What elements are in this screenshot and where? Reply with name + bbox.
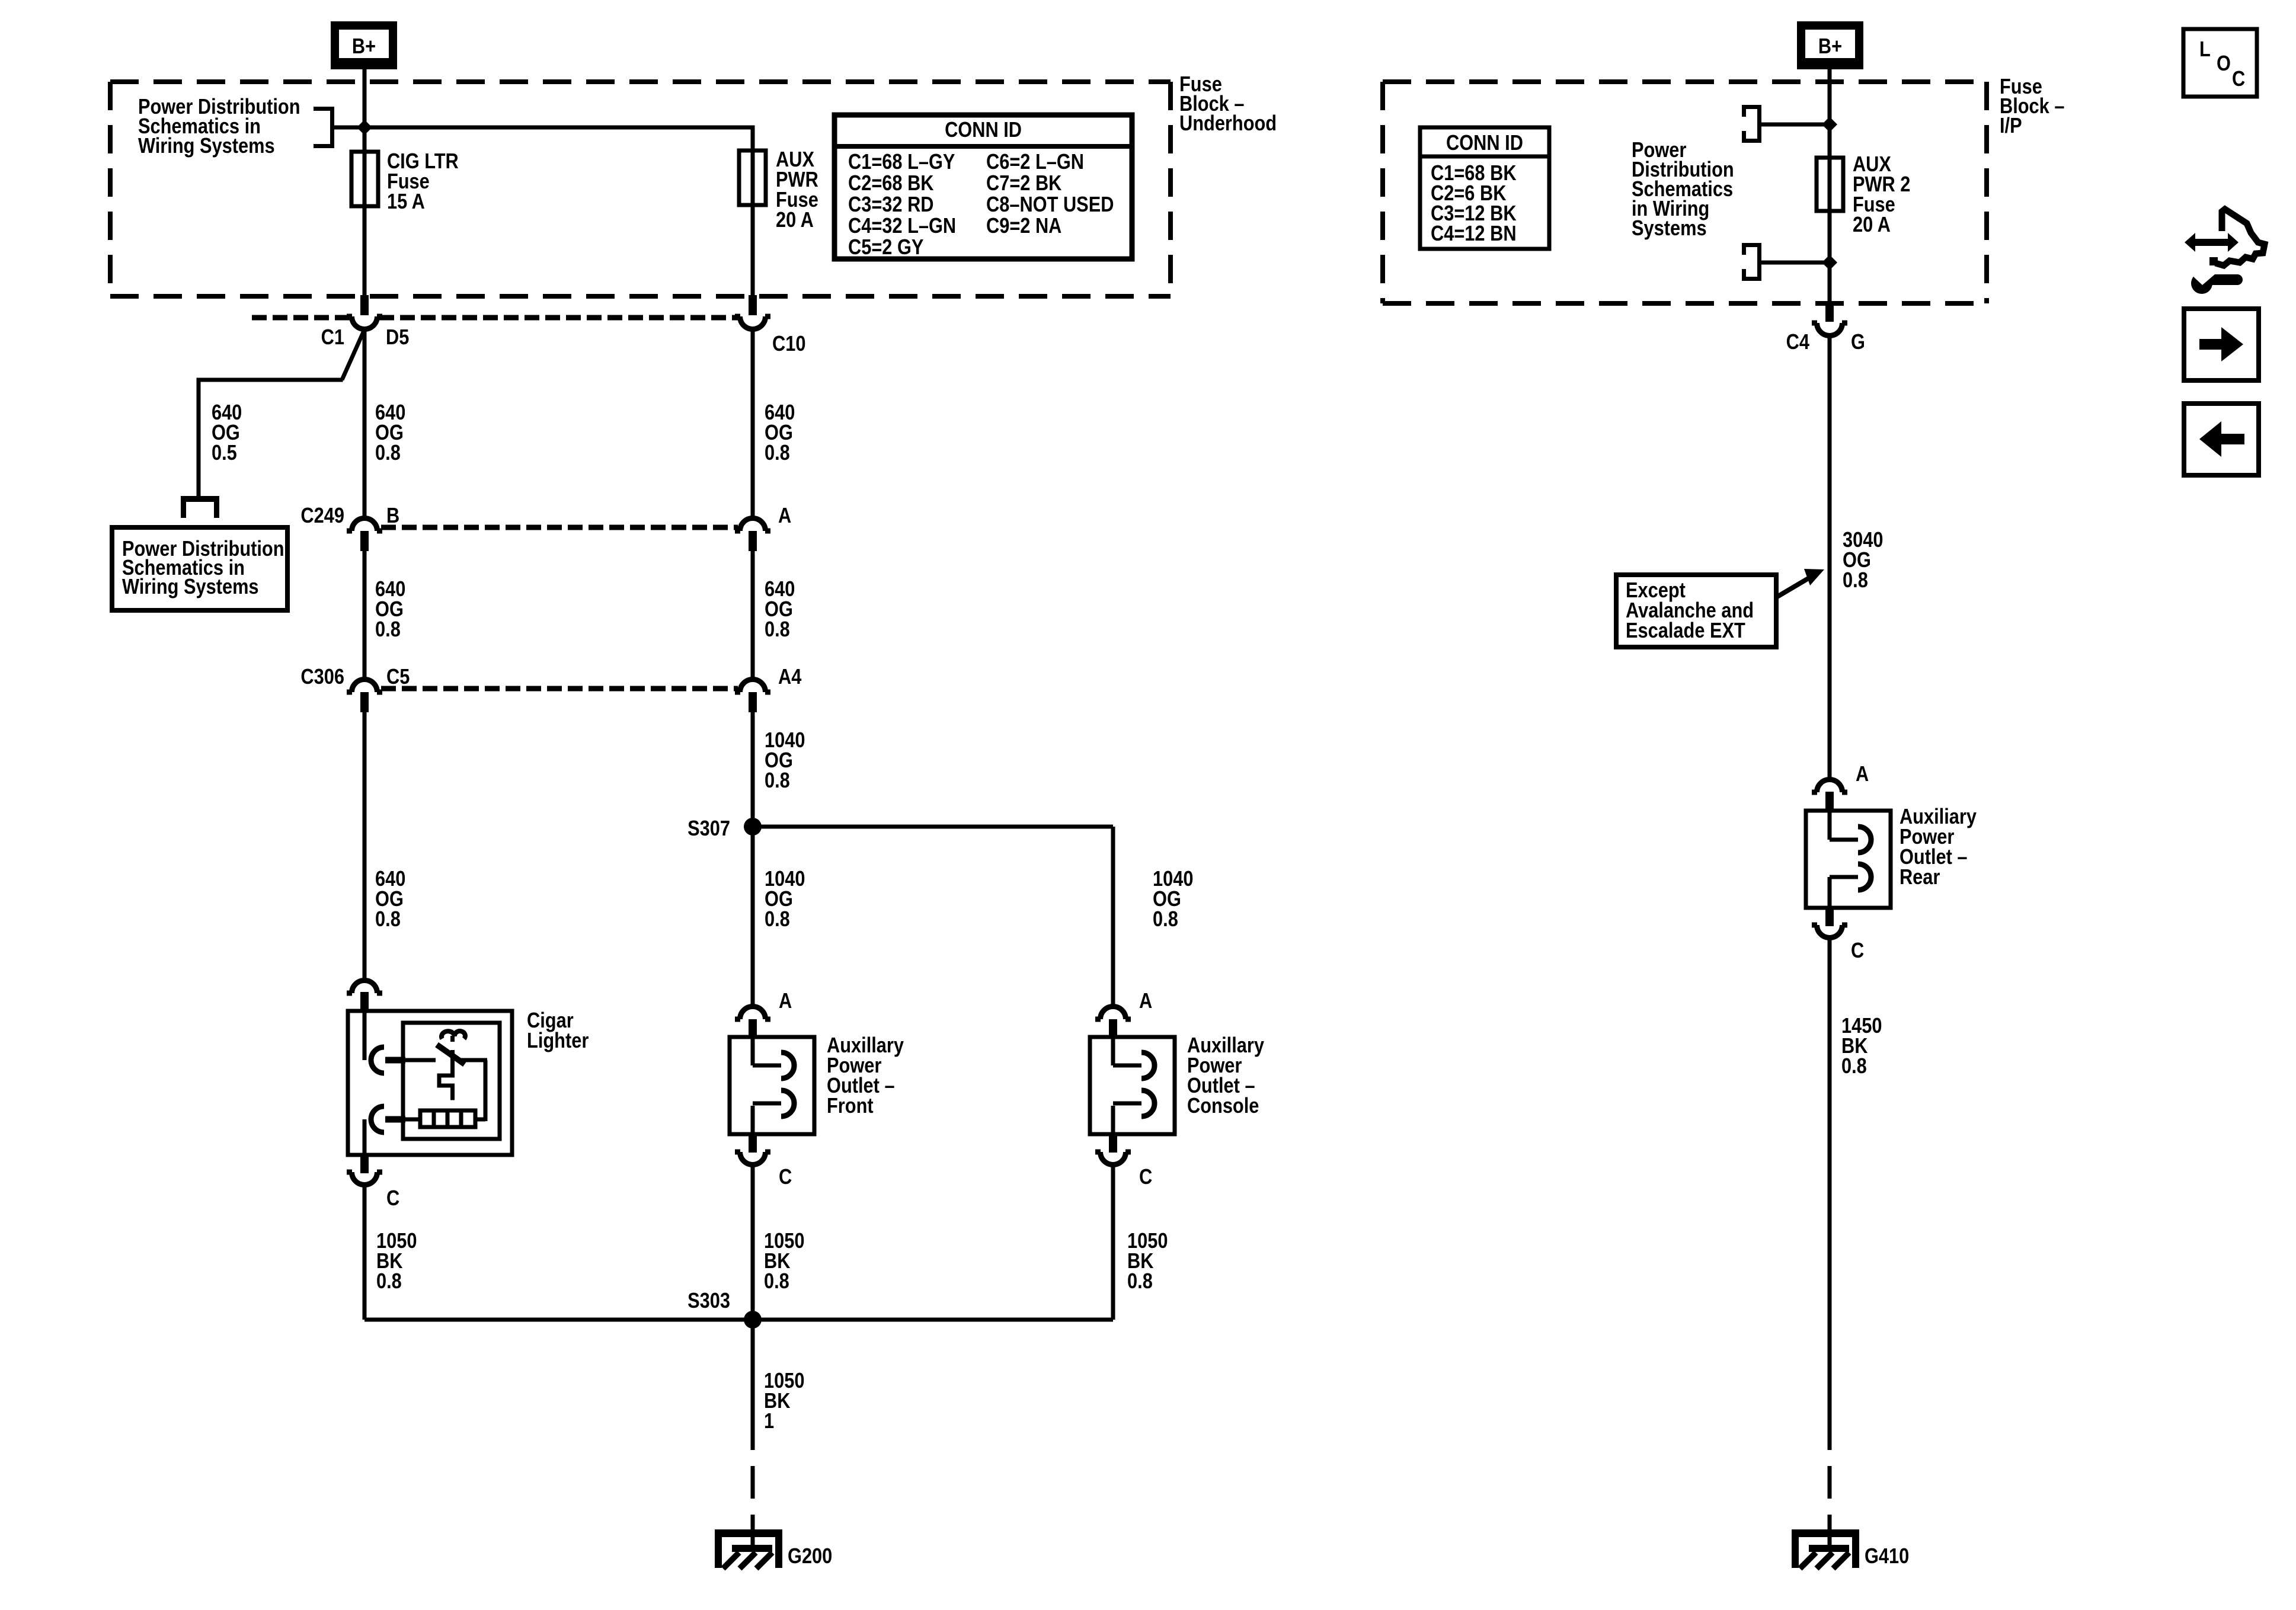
- svg-text:0.8: 0.8: [765, 908, 790, 932]
- cigar lighter outer box: [348, 1011, 512, 1155]
- wire down to rear outlet: [1828, 337, 1832, 779]
- outlet console internal upper terminal: [1111, 1037, 1115, 1065]
- outlet rear internal upper terminal: [1828, 811, 1832, 840]
- svg-text:CONN ID: CONN ID: [1446, 132, 1523, 155]
- svg-text:0.8: 0.8: [375, 908, 401, 932]
- svg-text:0.8: 0.8: [765, 769, 790, 793]
- Power Distribution Schematics box: [112, 527, 287, 610]
- branch wire diagonal from C1: [342, 329, 364, 380]
- horizontal bus wire: [334, 126, 755, 130]
- junction node on CIG LTR wire: [357, 120, 372, 135]
- svg-text:Wiring Systems: Wiring Systems: [122, 575, 259, 599]
- svg-text:C10: C10: [772, 332, 805, 356]
- wire to S307: [751, 712, 755, 827]
- ground G200: [715, 1529, 782, 1537]
- forward arrow icon: [2184, 309, 2259, 380]
- CONN ID table (I/P): [1420, 127, 1549, 249]
- svg-text:A: A: [1856, 763, 1869, 786]
- svg-text:C2=68 BK: C2=68 BK: [848, 172, 934, 196]
- wire 640 OG segment 2 (left): [363, 551, 367, 680]
- svg-text:B: B: [386, 504, 399, 528]
- wire down to CIG LTR fuse: [363, 127, 367, 297]
- connector A terminal (AUX wire): [740, 518, 766, 532]
- wire front outlet C down: [751, 1165, 755, 1320]
- wire 640 OG (AUX PWR circuit): [751, 329, 755, 519]
- ground bus wire S303: [364, 1318, 1113, 1322]
- svg-text:0.8: 0.8: [376, 1270, 402, 1294]
- svg-text:Front: Front: [827, 1094, 874, 1118]
- svg-text:0.8: 0.8: [1841, 1055, 1867, 1078]
- svg-text:C: C: [1851, 939, 1864, 963]
- upper bracket: [1742, 105, 1761, 109]
- outlet front internal upper terminal: [751, 1037, 755, 1065]
- svg-text:D5: D5: [386, 326, 409, 350]
- B+ power terminal (right): [1797, 21, 1863, 69]
- svg-text:C6=2 L–GN: C6=2 L–GN: [986, 151, 1084, 174]
- arrow from Except box to wire: [1776, 576, 1812, 597]
- cigar lighter right conductor: [459, 1058, 487, 1062]
- junction node lower: [1822, 255, 1837, 270]
- connector C terminal at front: [749, 1134, 757, 1153]
- outlet front internal lower terminal: [751, 1106, 755, 1134]
- svg-text:0.8: 0.8: [1127, 1270, 1153, 1294]
- svg-text:0.8: 0.8: [764, 1270, 789, 1294]
- junction node upper: [1822, 117, 1837, 132]
- svg-text:B+: B+: [1818, 35, 1842, 59]
- Except Avalanche and Escalade EXT box: [1616, 575, 1776, 647]
- svg-text:0.8: 0.8: [375, 441, 401, 465]
- connector row dashed line C306: [381, 686, 738, 692]
- wire dashed segment above ground G200: [751, 1466, 755, 1499]
- bracket to Power Distribution reference: [314, 107, 334, 111]
- cigar lighter internal lower terminal: [405, 1118, 420, 1122]
- svg-text:C4=32 L–GN: C4=32 L–GN: [848, 215, 956, 238]
- svg-text:A: A: [778, 504, 791, 528]
- svg-text:0.8: 0.8: [765, 441, 790, 465]
- connector C10 terminal: [749, 295, 757, 315]
- svg-text:Console: Console: [1187, 1094, 1259, 1118]
- connector C4 G terminal: [1825, 302, 1834, 322]
- connector A4 terminal: [740, 680, 766, 693]
- svg-text:A: A: [779, 990, 792, 1013]
- svg-text:C1: C1: [321, 326, 344, 350]
- svg-text:S307: S307: [687, 817, 730, 841]
- back arrow icon: [2184, 404, 2259, 475]
- svg-text:C: C: [1139, 1166, 1152, 1189]
- connector A terminal at rear: [1817, 780, 1843, 793]
- svg-text:C3=32 RD: C3=32 RD: [848, 193, 934, 217]
- fuse block underhood dashed box: [110, 79, 1171, 84]
- aux power outlet rear box: [1806, 811, 1891, 908]
- branch wire vertical: [197, 380, 201, 496]
- svg-text:Systems: Systems: [1632, 217, 1707, 241]
- connector C terminal at console: [1109, 1134, 1117, 1153]
- svg-text:0.8: 0.8: [375, 618, 401, 642]
- svg-text:0.8: 0.8: [1153, 908, 1178, 932]
- connector C terminal at rear: [1825, 908, 1834, 926]
- svg-text:C9=2 NA: C9=2 NA: [986, 215, 1061, 238]
- svg-text:C8–NOT USED: C8–NOT USED: [986, 193, 1114, 217]
- vehicle navigation icon: [2185, 209, 2265, 294]
- svg-text:S303: S303: [687, 1289, 730, 1313]
- wire 640 OG segment 2 (mid): [751, 551, 755, 680]
- outlet console internal lower terminal: [1111, 1106, 1115, 1134]
- splice S307: [744, 818, 762, 836]
- wire console outlet C down: [1111, 1165, 1115, 1320]
- fuse AUX PWR 2 20A: [1817, 158, 1843, 211]
- svg-text:0.8: 0.8: [765, 618, 790, 642]
- wire terminator staple: [181, 496, 219, 502]
- connector C249 B terminal: [352, 518, 378, 532]
- aux power outlet front box: [730, 1037, 814, 1134]
- wire S307 to console branch: [753, 825, 1113, 829]
- svg-text:O: O: [2217, 52, 2231, 76]
- svg-text:Lighter: Lighter: [527, 1029, 589, 1053]
- svg-text:CONN ID: CONN ID: [945, 119, 1022, 142]
- svg-text:0.5: 0.5: [212, 441, 237, 465]
- wire 640 OG (CIG LTR circuit): [363, 329, 367, 519]
- wire S303 to ground: [751, 1322, 755, 1450]
- branch wire horizontal: [197, 378, 343, 382]
- wire to cigar lighter: [363, 712, 367, 980]
- connector C terminal at cigar lighter: [360, 1155, 369, 1173]
- wire B+ down to fuse block: [363, 69, 367, 127]
- wire dashed segment above ground G410: [1828, 1466, 1832, 1499]
- svg-text:C5: C5: [386, 665, 410, 689]
- cigar lighter heating coil: [442, 1031, 465, 1039]
- svg-text:Underhood: Underhood: [1179, 112, 1277, 136]
- cigar lighter internal upper terminal: [363, 1013, 367, 1060]
- svg-text:C1=68 L–GY: C1=68 L–GY: [848, 151, 955, 174]
- B+ power terminal (left): [331, 21, 397, 69]
- svg-text:C7=2 BK: C7=2 BK: [986, 172, 1061, 196]
- cigar lighter switch blade: [437, 1045, 465, 1064]
- connector A terminal at front: [740, 1007, 766, 1020]
- svg-text:C: C: [779, 1166, 792, 1189]
- svg-text:C306: C306: [300, 665, 344, 689]
- connector C306 C5 terminal: [352, 680, 378, 693]
- svg-text:0.8: 0.8: [1843, 569, 1868, 593]
- svg-text:C249: C249: [300, 504, 344, 528]
- svg-text:C: C: [2232, 68, 2245, 91]
- connector row dashed line (fuse block C1/C10): [252, 315, 350, 321]
- ground G410: [1792, 1529, 1859, 1537]
- CONN ID table (underhood): [834, 115, 1132, 259]
- LOC icon box: [2183, 29, 2257, 97]
- cigar lighter bimetal zigzag: [450, 1050, 455, 1077]
- svg-text:C4: C4: [1786, 331, 1810, 354]
- svg-text:20 A: 20 A: [1853, 213, 1891, 237]
- connector row dashed line C249: [381, 525, 738, 530]
- aux power outlet console box: [1090, 1037, 1175, 1134]
- splice S303: [744, 1311, 762, 1329]
- svg-text:15 A: 15 A: [387, 190, 425, 214]
- wire down to front outlet: [751, 827, 755, 1007]
- svg-text:A: A: [1139, 990, 1152, 1013]
- wire cigar lighter C down: [363, 1185, 367, 1320]
- fuse block I/P dashed box: [1383, 79, 1987, 84]
- wire B+ down (right): [1828, 69, 1832, 303]
- connector A terminal at cigar lighter: [352, 981, 378, 994]
- svg-text:C5=2 GY: C5=2 GY: [848, 236, 923, 260]
- lower bracket: [1742, 243, 1761, 247]
- svg-text:Escalade EXT: Escalade EXT: [1626, 619, 1745, 643]
- fuse CIG LTR 15A: [351, 152, 378, 206]
- svg-text:1: 1: [764, 1410, 774, 1433]
- wire down to console outlet: [1111, 827, 1115, 1007]
- cigar lighter inner box: [403, 1023, 500, 1139]
- wrench: [2191, 273, 2212, 294]
- svg-text:L: L: [2199, 38, 2211, 62]
- svg-text:G410: G410: [1865, 1545, 1909, 1569]
- wire rear outlet to ground: [1828, 938, 1832, 1450]
- svg-text:Wiring Systems: Wiring Systems: [138, 135, 275, 158]
- svg-text:Rear: Rear: [1900, 866, 1940, 889]
- cigar lighter heater element: [420, 1110, 475, 1127]
- svg-text:G200: G200: [788, 1545, 832, 1569]
- outlet rear internal lower terminal: [1828, 877, 1832, 908]
- wire down to AUX PWR fuse: [751, 127, 755, 297]
- svg-text:B+: B+: [352, 35, 376, 59]
- fuse AUX PWR 20A: [739, 151, 766, 205]
- svg-text:I/P: I/P: [2000, 114, 2022, 138]
- svg-text:C: C: [386, 1187, 399, 1211]
- connector A terminal at console: [1101, 1007, 1126, 1020]
- svg-text:A4: A4: [778, 665, 802, 689]
- connector C1 terminal: [360, 295, 369, 315]
- svg-text:C4=12 BN: C4=12 BN: [1431, 222, 1517, 246]
- svg-text:20 A: 20 A: [776, 209, 814, 232]
- svg-text:G: G: [1851, 331, 1865, 354]
